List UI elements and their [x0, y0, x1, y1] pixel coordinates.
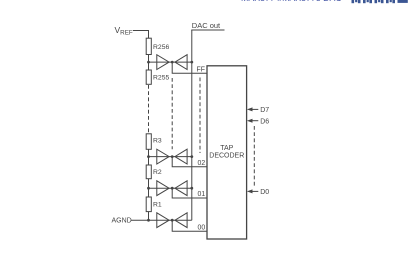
switch right triangle 00	[175, 213, 187, 228]
wire R2 to R1	[148, 179, 150, 197]
wire R1 to AGND node	[148, 212, 150, 221]
wire DAC out flag	[191, 29, 224, 31]
wire row FF	[149, 61, 192, 63]
wire dashed decoder tap continuation	[199, 78, 201, 154]
node 00 label	[198, 224, 206, 231]
resistor R3	[146, 134, 151, 150]
switch right triangle 02	[175, 149, 187, 164]
node tap 02	[147, 155, 150, 158]
node on DAC bus 02	[190, 155, 193, 158]
switch row 01	[149, 181, 208, 198]
wire tap 00 to decoder	[172, 220, 207, 231]
switch left triangle 01	[157, 181, 169, 196]
pin D6 arrow	[247, 118, 269, 125]
wire AGND	[131, 219, 149, 221]
node junction 02	[171, 155, 174, 158]
wire dashed data bus continuation D6..D0	[253, 126, 255, 187]
wire tap 02 to decoder	[172, 157, 207, 167]
wire row 02	[149, 156, 192, 158]
resistor R1	[146, 197, 151, 212]
node AGND label	[112, 218, 132, 225]
switch left triangle FF	[157, 55, 169, 70]
switch right triangle 01	[175, 181, 187, 196]
wire DAC out vertical bus	[191, 30, 193, 220]
node tap FF	[147, 61, 150, 64]
tap decoder box U1	[207, 66, 247, 239]
node FF label	[197, 66, 205, 73]
wire row 00	[149, 219, 192, 221]
node junction FF	[171, 61, 174, 64]
resistor R2	[146, 165, 151, 179]
switch row 02	[149, 149, 208, 167]
node tap 01	[147, 187, 150, 190]
switch left triangle 00	[157, 213, 169, 228]
switch row 00	[149, 213, 208, 232]
wire VREF to resistor string	[133, 31, 149, 39]
node VREF label	[115, 25, 133, 37]
wire R256 to R255	[148, 55, 150, 71]
wire row 01	[149, 187, 192, 189]
switch left triangle 02	[157, 149, 169, 164]
node junction 00	[171, 219, 174, 222]
resistor R256	[146, 38, 151, 54]
node junction 01	[171, 187, 174, 190]
switch right triangle FF	[175, 55, 187, 70]
header bold CJK text bottoms	[352, 0, 408, 3]
wire dashed junction bus continuation	[171, 78, 173, 149]
node 01 label	[198, 191, 206, 198]
wire dashed resistor string continuation	[148, 85, 150, 134]
node on DAC bus FF	[190, 61, 193, 64]
wire tap FF to decoder	[172, 62, 207, 73]
pin D0 arrow	[247, 189, 269, 196]
pin D7 arrow	[247, 107, 269, 114]
switch row FF	[149, 55, 208, 74]
node on DAC bus 01	[190, 187, 193, 190]
node DAC out label	[192, 21, 221, 30]
header partial blue text (cut off at top)	[241, 0, 346, 3]
node AGND tap 00	[147, 219, 150, 222]
resistor R255	[146, 70, 151, 84]
wire R3 to R2	[148, 149, 150, 165]
wire tap 01 to decoder	[172, 188, 207, 198]
node 02 label	[198, 160, 206, 167]
